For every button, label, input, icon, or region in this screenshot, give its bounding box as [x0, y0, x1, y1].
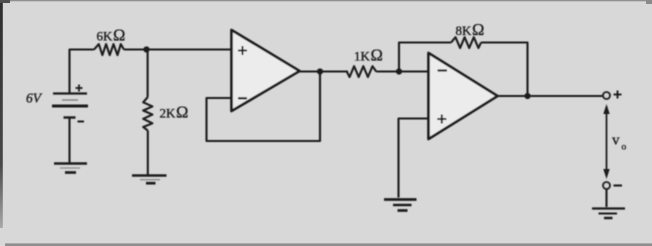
- wire: 6K to op-amp1 + input: [124, 48, 232, 50]
- battery B1 plate long top: [53, 92, 87, 94]
- scan border left: [0, 0, 3, 228]
- op-amp U2 triangle: [429, 53, 498, 139]
- wire: U2 output to + terminal: [496, 95, 603, 97]
- terminal + sign: [614, 91, 622, 99]
- op-amp U1 + input sign: [238, 46, 247, 55]
- op-amp U2 - input sign: [438, 69, 448, 71]
- wire: 8K to U2 output drop: [481, 43, 528, 94]
- node dot U1 output feedback tap: [317, 68, 323, 74]
- op-amp U1 - input sign: [238, 97, 247, 99]
- node dot U2 output feedback tap: [524, 93, 530, 99]
- battery B1 plate short faint: [62, 99, 78, 101]
- terminal - sign: [614, 184, 623, 186]
- ground under U2 + input: [384, 200, 417, 211]
- node junction dot at 6K/2K: [143, 46, 149, 52]
- wire: - terminal to ground: [605, 189, 607, 207]
- battery - sign: [78, 121, 85, 123]
- vo arrow line: [606, 110, 608, 172]
- wire: battery - plate down to ground: [68, 118, 70, 163]
- node dot at U2 inverting input: [396, 68, 402, 74]
- wire: U1 feedback loop output to - input: [207, 72, 321, 142]
- ground under - terminal: [592, 209, 625, 219]
- wire: 1K to U2 - input: [376, 70, 428, 72]
- battery B1 plate short bottom: [64, 116, 76, 118]
- wire: U2 + input to ground: [399, 119, 429, 198]
- svg-text:6KΩ: 6KΩ: [97, 26, 126, 45]
- svg-text:2KΩ: 2KΩ: [160, 103, 189, 122]
- ground under 2K: [132, 176, 167, 184]
- resistor R 6K zigzag: [94, 44, 124, 55]
- scan border bottom: [5, 243, 652, 246]
- wire: feedback riser and top rail to 8K: [399, 43, 451, 71]
- wire: node down to 2K: [147, 50, 149, 98]
- svg-text:v: v: [612, 133, 620, 149]
- wire: U1 output to 1K: [298, 70, 348, 72]
- svg-text:8KΩ: 8KΩ: [456, 20, 485, 39]
- wire: battery + terminal up to top rail: [70, 50, 95, 93]
- svg-text:o: o: [622, 143, 627, 153]
- op-amp U2 + input sign: [437, 115, 446, 124]
- terminal - open circle: [603, 182, 610, 189]
- resistor R 1K zigzag: [347, 66, 377, 77]
- wire: 2K down to ground: [147, 131, 149, 175]
- svg-text:1KΩ: 1KΩ: [354, 46, 383, 65]
- ground under battery: [54, 164, 87, 173]
- vo arrowhead down: [603, 169, 609, 179]
- battery + sign: [76, 85, 83, 92]
- terminal + open circle: [603, 92, 610, 99]
- resistor R 2K zigzag vertical: [143, 97, 152, 131]
- op-amp U1 triangle: [232, 30, 300, 111]
- svg-text:6V: 6V: [26, 91, 43, 106]
- scan border top: [0, 0, 652, 1]
- resistor R 8K zigzag: [451, 37, 481, 48]
- vo arrowhead up: [603, 104, 609, 114]
- battery B1 plate long lower: [52, 105, 88, 108]
